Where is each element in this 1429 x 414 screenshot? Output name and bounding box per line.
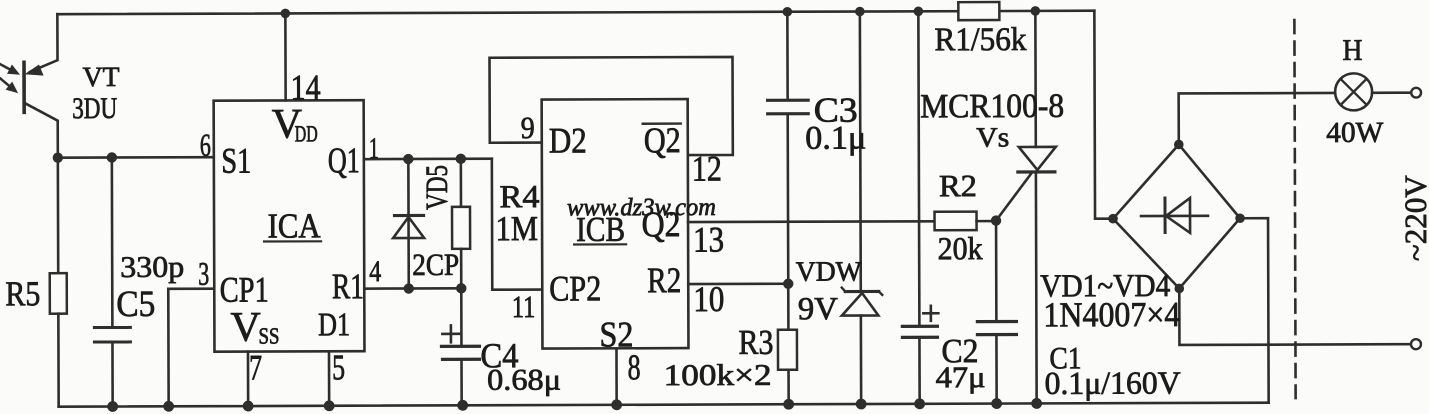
- svg-text:20k: 20k: [938, 230, 983, 266]
- svg-text:2CP: 2CP: [412, 247, 459, 282]
- resistor R3 100k: [778, 284, 797, 405]
- svg-text:330p: 330p: [120, 251, 184, 284]
- svg-text:VD5: VD5: [419, 165, 454, 210]
- svg-text:CP2: CP2: [549, 268, 601, 308]
- junction top rail at C3: [783, 7, 793, 17]
- svg-text:R1: R1: [332, 266, 364, 306]
- svg-text:47μ: 47μ: [936, 361, 986, 394]
- wire bridge top to lamp: [1179, 93, 1336, 145]
- wire D2 pin9 to Q2bar pin12 loop: [490, 57, 733, 156]
- svg-text:14: 14: [291, 67, 321, 107]
- node R4 top: [456, 154, 466, 164]
- junction ground rail at pin5: [324, 400, 335, 411]
- terminal top AC: [1411, 88, 1421, 98]
- svg-text:ICA: ICA: [267, 206, 321, 245]
- light arrow 2 into VT: [0, 78, 18, 94]
- svg-text:D2: D2: [549, 120, 587, 160]
- node bridge left: [1108, 214, 1118, 224]
- resistor R5: [49, 158, 67, 407]
- svg-text:V: V: [230, 305, 260, 351]
- svg-text:1M: 1M: [496, 209, 539, 248]
- svg-text:S1: S1: [221, 141, 251, 181]
- svg-text:3DU: 3DU: [72, 92, 117, 125]
- underline ICA: [264, 240, 321, 242]
- svg-text:Q1: Q1: [328, 140, 360, 180]
- wire R1 pin4: [364, 287, 461, 290]
- svg-text:11: 11: [512, 289, 536, 324]
- resistor R4: [452, 159, 470, 289]
- junction top rail at C2 branch: [914, 7, 924, 17]
- node R4 bottom: [456, 283, 466, 293]
- svg-text:D1: D1: [318, 307, 350, 343]
- svg-text:9V: 9V: [798, 290, 838, 326]
- svg-text:VT: VT: [83, 62, 120, 93]
- overline Q2bar: [643, 122, 681, 125]
- svg-text:13: 13: [693, 219, 724, 259]
- svg-text:VDW: VDW: [796, 257, 863, 288]
- svg-text:5: 5: [332, 347, 345, 387]
- thyristor Vs MCR100-8: [995, 11, 1056, 404]
- capacitor C3: [767, 12, 808, 284]
- node VD5 bottom: [404, 283, 414, 293]
- svg-text:SS: SS: [258, 323, 279, 348]
- transistor VT 3DU phototransistor: [24, 14, 58, 158]
- node R3 top: [783, 279, 793, 289]
- node bridge top: [1174, 140, 1184, 150]
- wire S2 pin8 to ground: [615, 348, 618, 404]
- svg-text:Q2: Q2: [644, 120, 681, 160]
- junction ground rail at C1: [991, 398, 1002, 409]
- wire pin7 VSS to ground: [247, 352, 250, 406]
- resistor R2 20k: [935, 212, 997, 231]
- junction top rail at VDW branch: [855, 7, 865, 17]
- bridge rectifier VD1~VD4: [1113, 144, 1240, 288]
- junction ground rail at pin8: [611, 399, 622, 410]
- svg-text:9: 9: [521, 110, 535, 145]
- junction ground rail at CP1: [163, 401, 174, 412]
- wire Q1 to CP2 pin11: [492, 159, 542, 290]
- capacitor C2 with + polarity: [901, 11, 938, 404]
- node gate junction: [991, 215, 1001, 225]
- wire Q1 pin1 output: [364, 157, 492, 160]
- diode VD5: [393, 159, 424, 289]
- junction ground rail at C2: [914, 398, 925, 409]
- node bridge right: [1235, 213, 1245, 223]
- svg-text:R1/56k: R1/56k: [934, 22, 1027, 58]
- zener diode VDW: [841, 11, 883, 404]
- wire CP1 pin3 to ground rail: [168, 289, 214, 407]
- wire ground rail: [59, 403, 1269, 407]
- junction ground rail at VDW: [856, 399, 867, 410]
- svg-text:100k×2: 100k×2: [664, 359, 772, 392]
- dashed mains separation line: [1294, 20, 1295, 398]
- junction ground rail at pin7: [243, 401, 254, 412]
- svg-text:C5: C5: [116, 284, 155, 325]
- wire bridge right to ground rail: [1240, 218, 1269, 403]
- svg-text:0.1μ/160V: 0.1μ/160V: [1045, 364, 1181, 400]
- op-amp ICB box: [542, 99, 689, 348]
- svg-text:R2: R2: [647, 260, 681, 300]
- svg-text:0.68μ: 0.68μ: [487, 364, 561, 397]
- node VT emitter: [53, 152, 63, 162]
- wire pin5 D1 to ground: [328, 351, 331, 405]
- svg-text:Vs: Vs: [976, 123, 1009, 154]
- svg-text:www.dz3w.com: www.dz3w.com: [567, 194, 716, 221]
- svg-text:3: 3: [198, 257, 209, 293]
- light arrow 1 into VT: [1, 64, 21, 75]
- wire R2 pin10 to R3: [688, 282, 788, 285]
- wire pin14 VDD: [284, 13, 287, 100]
- underline ICB: [574, 243, 626, 245]
- wire top rail to bridge left: [1094, 11, 1113, 219]
- svg-text:10: 10: [693, 279, 724, 319]
- junction ground rail at C5: [107, 401, 118, 412]
- svg-text:0.1μ: 0.1μ: [805, 120, 866, 156]
- svg-text:H: H: [1342, 34, 1362, 67]
- node bridge bottom: [1174, 284, 1184, 294]
- junction ground rail at C4: [457, 400, 468, 411]
- svg-text:R3: R3: [738, 323, 773, 362]
- junction top rail at thyristor branch: [1031, 6, 1041, 16]
- wire emitter node to ICA S1: [58, 156, 214, 159]
- terminal bottom AC: [1411, 339, 1421, 349]
- svg-text:1N4007×4: 1N4007×4: [1043, 295, 1180, 334]
- svg-text:DD: DD: [295, 121, 318, 146]
- junction ground rail at thyristor: [1031, 398, 1042, 409]
- svg-text:7: 7: [249, 347, 262, 387]
- wire lamp to terminal: [1372, 91, 1410, 94]
- wire bridge bottom to terminal: [1179, 288, 1410, 345]
- svg-text:1: 1: [369, 132, 379, 165]
- svg-text:12: 12: [692, 148, 722, 188]
- capacitor C5: [94, 157, 131, 406]
- lamp H: [1335, 73, 1372, 110]
- svg-text:R5: R5: [5, 274, 40, 313]
- wire Q2 pin13 to R2: [688, 220, 935, 223]
- capacitor C1: [977, 220, 1017, 403]
- svg-text:6: 6: [200, 127, 211, 163]
- svg-text:R2: R2: [939, 168, 977, 203]
- capacitor C4 with + polarity: [441, 288, 479, 405]
- svg-text:~220V: ~220V: [1398, 175, 1429, 262]
- node C5 top: [107, 152, 117, 162]
- resistor R1 56k: [958, 2, 999, 20]
- svg-text:4: 4: [369, 255, 381, 288]
- node VD5 top: [403, 154, 413, 164]
- junction top rail at pin14: [281, 9, 291, 19]
- svg-text:40W: 40W: [1326, 117, 1384, 149]
- wire top supply rail: [57, 11, 1094, 14]
- svg-text:8: 8: [627, 347, 640, 387]
- svg-text:MCR100-8: MCR100-8: [920, 88, 1064, 125]
- op-amp ICA box: [214, 100, 365, 351]
- junction ground rail at R3: [783, 399, 794, 410]
